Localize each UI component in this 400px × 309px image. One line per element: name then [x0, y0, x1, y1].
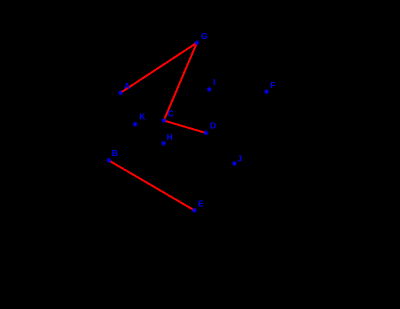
node G	[195, 31, 208, 45]
node F	[265, 80, 276, 94]
node A	[118, 81, 130, 95]
svg-text:H: H	[167, 132, 173, 142]
node E	[192, 199, 204, 213]
wire segment G-C	[164, 43, 197, 121]
svg-text:B: B	[112, 148, 118, 158]
node D	[204, 121, 216, 135]
wire segment G-A	[120, 43, 196, 93]
node C	[162, 109, 174, 123]
svg-text:E: E	[198, 199, 204, 209]
svg-text:G: G	[201, 31, 208, 41]
node I	[207, 77, 215, 92]
node B	[107, 148, 118, 162]
node J	[232, 153, 242, 165]
svg-text:K: K	[139, 112, 146, 122]
node K	[133, 112, 146, 127]
wire segment B-E	[109, 160, 195, 210]
svg-text:C: C	[168, 109, 174, 119]
wire segment C-D	[164, 121, 206, 134]
svg-text:D: D	[210, 121, 216, 131]
svg-text:J: J	[237, 153, 242, 163]
svg-text:A: A	[124, 81, 130, 91]
svg-text:F: F	[270, 80, 275, 90]
node H	[162, 132, 173, 145]
svg-text:I: I	[213, 77, 215, 87]
